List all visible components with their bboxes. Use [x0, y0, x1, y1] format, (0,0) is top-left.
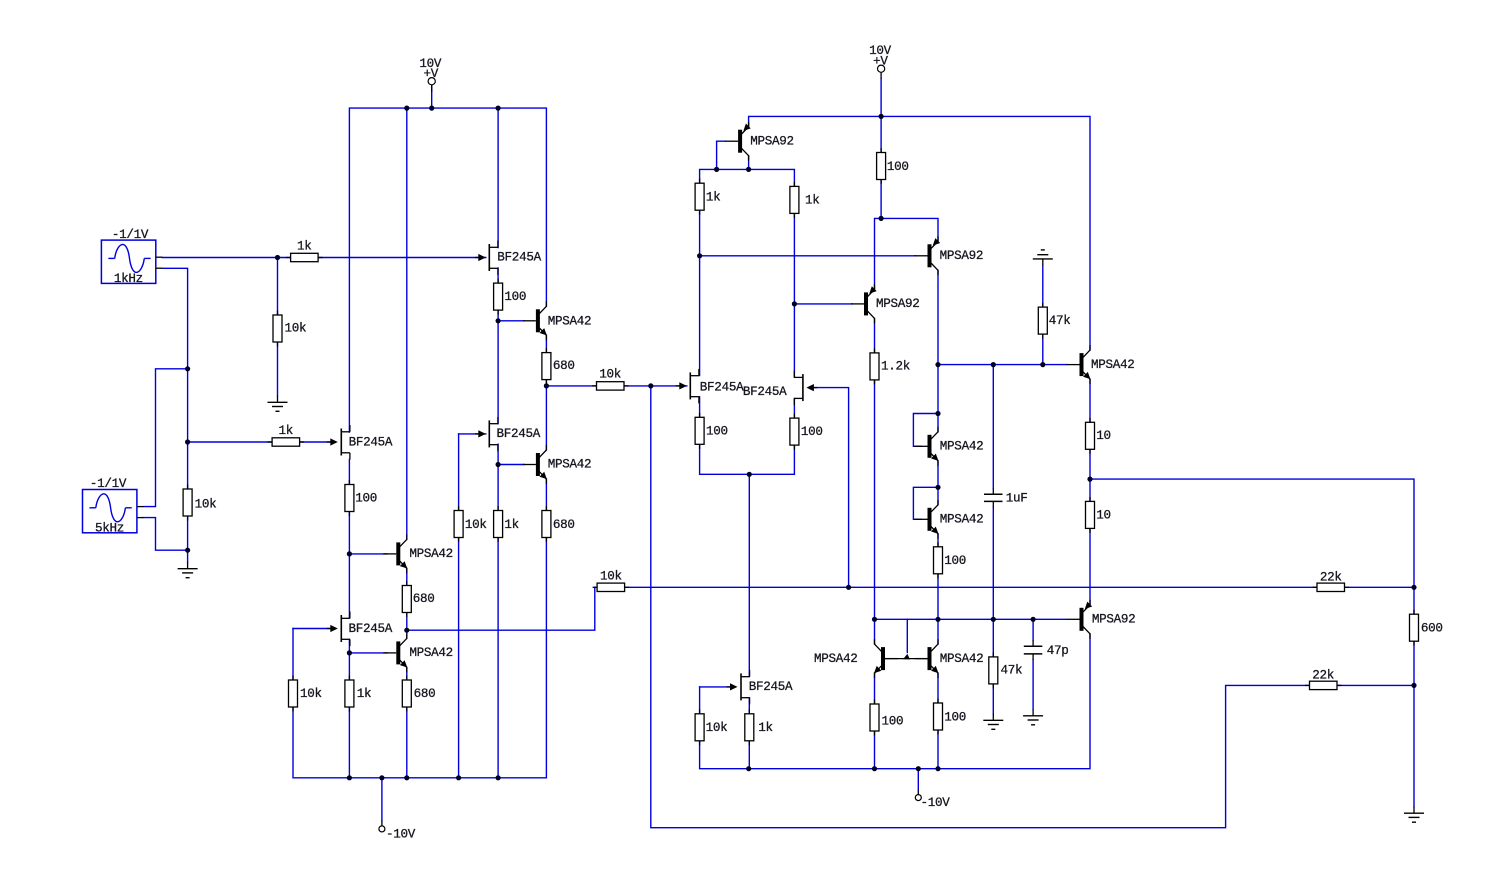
svg-text:10k: 10k [465, 518, 487, 532]
svg-text:MPSA42: MPSA42 [409, 646, 453, 660]
svg-text:MPSA92: MPSA92 [940, 249, 984, 263]
svg-text:BF245A: BF245A [749, 680, 793, 694]
svg-text:MPSA42: MPSA42 [940, 652, 984, 666]
svg-text:BF245A: BF245A [349, 435, 393, 449]
svg-text:10k: 10k [706, 721, 728, 735]
svg-text:600: 600 [1421, 621, 1443, 635]
svg-text:MPSA42: MPSA42 [940, 513, 984, 527]
svg-text:10k: 10k [195, 498, 217, 512]
svg-text:MPSA42: MPSA42 [814, 652, 858, 666]
svg-text:47k: 47k [1001, 664, 1023, 678]
svg-text:BF245A: BF245A [497, 427, 541, 441]
svg-text:MPSA92: MPSA92 [1092, 613, 1136, 627]
svg-text:-10V: -10V [921, 796, 951, 810]
svg-text:100: 100 [882, 714, 904, 728]
svg-text:47p: 47p [1047, 644, 1069, 658]
svg-text:680: 680 [553, 359, 575, 373]
svg-text:+V: +V [424, 67, 439, 81]
svg-text:-1/1V: -1/1V [90, 477, 127, 491]
svg-text:100: 100 [944, 554, 966, 568]
svg-text:MPSA92: MPSA92 [750, 135, 794, 149]
svg-text:1kHz: 1kHz [114, 272, 143, 286]
svg-text:1k: 1k [297, 240, 312, 254]
svg-text:10k: 10k [300, 687, 322, 701]
svg-text:10: 10 [1096, 429, 1111, 443]
svg-text:100: 100 [887, 160, 909, 174]
svg-text:10k: 10k [600, 570, 622, 584]
svg-text:MPSA42: MPSA42 [409, 547, 453, 561]
svg-text:BF245A: BF245A [349, 622, 393, 636]
svg-text:1k: 1k [504, 518, 519, 532]
svg-text:BF245A: BF245A [743, 385, 787, 399]
svg-text:100: 100 [355, 492, 377, 506]
svg-text:1k: 1k [706, 191, 721, 205]
svg-text:5kHz: 5kHz [95, 522, 124, 536]
svg-text:100: 100 [706, 425, 728, 439]
svg-text:680: 680 [553, 518, 575, 532]
svg-text:47k: 47k [1049, 314, 1071, 328]
svg-text:100: 100 [504, 290, 526, 304]
svg-text:BF245A: BF245A [497, 251, 541, 265]
svg-text:MPSA42: MPSA42 [940, 440, 984, 454]
svg-text:MPSA42: MPSA42 [548, 458, 592, 472]
svg-text:22k: 22k [1312, 669, 1334, 683]
svg-text:MPSA42: MPSA42 [1091, 358, 1135, 372]
svg-text:BF245A: BF245A [700, 381, 744, 395]
svg-text:10: 10 [1096, 508, 1111, 522]
svg-text:680: 680 [413, 592, 435, 606]
svg-text:MPSA42: MPSA42 [548, 315, 592, 329]
svg-text:+V: +V [873, 55, 888, 69]
svg-text:1k: 1k [805, 194, 820, 208]
svg-text:10k: 10k [285, 322, 307, 336]
svg-text:680: 680 [414, 687, 436, 701]
svg-text:-10V: -10V [386, 827, 416, 841]
svg-text:1k: 1k [758, 721, 773, 735]
svg-text:-1/1V: -1/1V [112, 228, 149, 242]
svg-text:1.2k: 1.2k [881, 360, 910, 374]
svg-text:1uF: 1uF [1006, 491, 1028, 505]
svg-text:MPSA92: MPSA92 [876, 297, 920, 311]
svg-text:10k: 10k [599, 368, 621, 382]
svg-text:22k: 22k [1320, 570, 1342, 584]
svg-text:1k: 1k [357, 687, 372, 701]
svg-text:100: 100 [801, 425, 823, 439]
svg-text:100: 100 [944, 710, 966, 724]
svg-text:1k: 1k [279, 424, 294, 438]
